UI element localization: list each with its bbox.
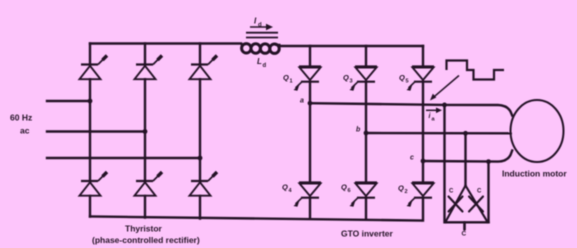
svg-text:L: L <box>257 57 262 66</box>
svg-text:C: C <box>477 189 482 195</box>
svg-text:a: a <box>432 117 436 123</box>
svg-text:1: 1 <box>290 79 293 85</box>
svg-text:Induction motor: Induction motor <box>502 169 567 179</box>
svg-text:Q: Q <box>282 183 288 192</box>
svg-text:Q: Q <box>399 73 405 82</box>
svg-text:c: c <box>410 155 414 162</box>
svg-text:b: b <box>356 127 361 134</box>
svg-text:60 Hz: 60 Hz <box>10 113 32 123</box>
svg-text:C: C <box>449 189 454 195</box>
svg-text:C: C <box>462 231 467 238</box>
svg-text:5: 5 <box>406 79 409 85</box>
svg-text:(phase-controlled rectifier): (phase-controlled rectifier) <box>92 235 200 245</box>
svg-text:3: 3 <box>350 79 353 85</box>
svg-text:I: I <box>254 17 257 26</box>
svg-text:Q: Q <box>283 73 289 82</box>
svg-text:Q: Q <box>343 73 349 82</box>
svg-text:Thyristor: Thyristor <box>125 224 163 234</box>
svg-text:d: d <box>258 23 262 29</box>
svg-text:Q: Q <box>398 184 404 193</box>
svg-text:d: d <box>263 63 267 69</box>
svg-text:GTO inverter: GTO inverter <box>341 229 393 239</box>
svg-text:4: 4 <box>289 188 293 194</box>
svg-text:2: 2 <box>405 189 408 195</box>
svg-text:6: 6 <box>348 188 351 194</box>
svg-text:ac: ac <box>20 126 30 136</box>
svg-text:Q: Q <box>341 183 347 192</box>
svg-text:a: a <box>300 98 304 105</box>
